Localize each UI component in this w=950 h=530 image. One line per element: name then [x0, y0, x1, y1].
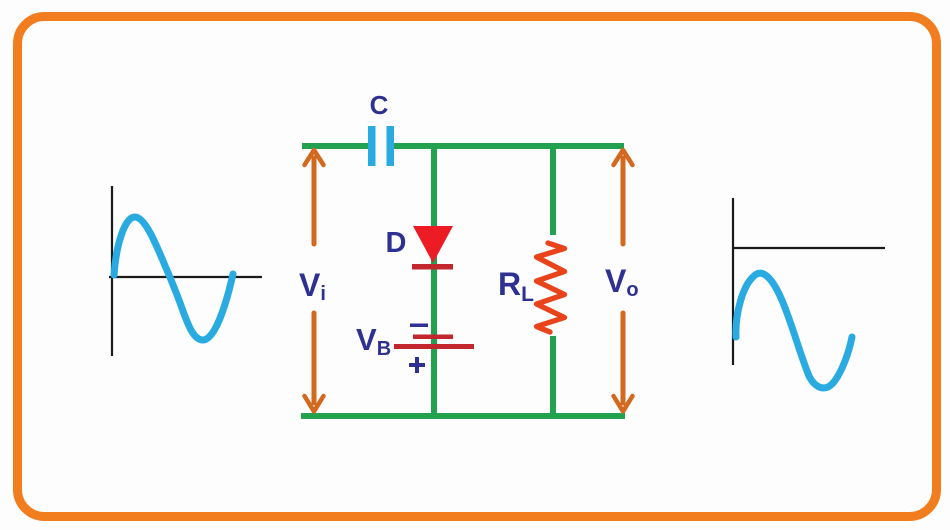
capacitor C [368, 126, 394, 166]
input sine wave [114, 217, 233, 340]
Vo arrow up [614, 150, 633, 244]
resistor RL [537, 243, 565, 332]
battery VB [394, 335, 474, 350]
Vi arrow up [305, 150, 324, 244]
input waveform axes [109, 186, 262, 356]
diode D [412, 226, 453, 270]
Vi arrow down [305, 313, 324, 412]
wire top [302, 143, 624, 149]
wire load branch bottom [550, 336, 556, 419]
battery plus sign [409, 357, 425, 373]
Vo arrow down [614, 313, 633, 412]
wire load branch top [550, 143, 556, 235]
svg-text:D: D [386, 227, 407, 259]
output waveform axes [733, 198, 885, 365]
wire bottom [301, 413, 625, 419]
svg-text:C: C [370, 90, 389, 120]
output sine wave [736, 273, 852, 388]
wire middle branch [431, 143, 437, 419]
battery minus sign [410, 324, 428, 328]
